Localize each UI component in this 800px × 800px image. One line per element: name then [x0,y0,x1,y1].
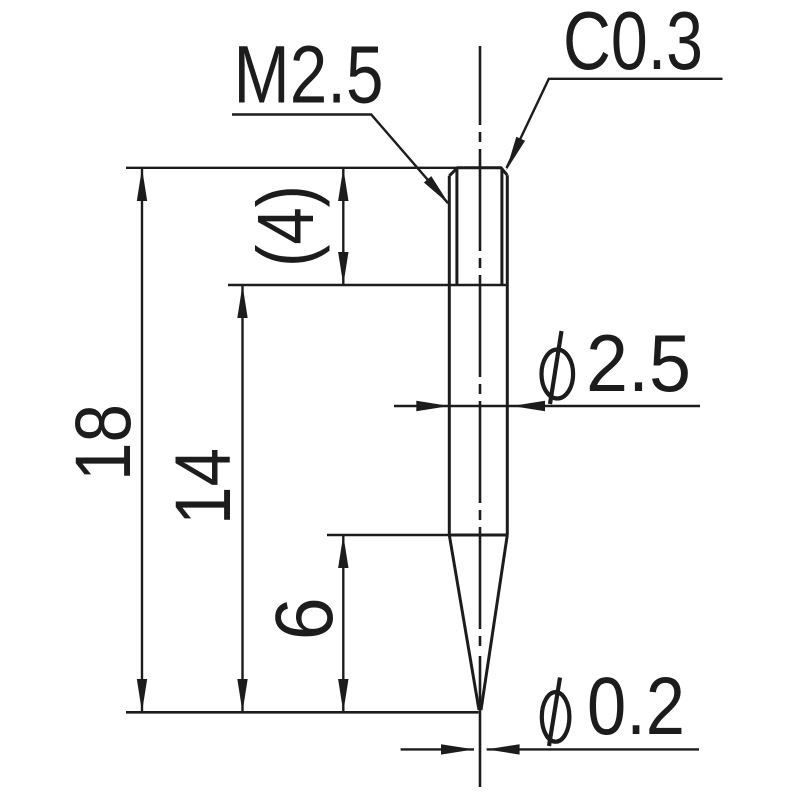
svg-text:2.5: 2.5 [586,319,691,409]
cone right edge [481,535,507,710]
dimension line (4) [342,168,344,285]
arrowhead leader M2.5 [424,176,449,204]
leader M2.5 [232,115,448,204]
dimension line 14 [241,285,243,712]
dimension line dia 2.5 [394,405,700,407]
arrowhead 14 top [237,285,247,318]
arrowhead 6 bottom [338,679,348,712]
svg-text:(4): (4) [241,185,330,267]
arrowhead 18 bottom [137,679,147,712]
thread root line left [455,169,458,285]
pin outer right edge [506,175,509,535]
pin top face and chamfers [449,168,507,176]
phi symbol of dia 2.5 [542,331,574,404]
arrowhead 18 top [137,168,147,201]
leader C0.3 [507,79,723,168]
arrowhead dia2.5 left [416,401,449,411]
center line [479,46,482,649]
pin outer left edge [448,176,451,535]
svg-text:M2.5: M2.5 [234,30,384,121]
extension line top (18 and (4) dims) [126,167,457,169]
svg-text:14: 14 [158,448,247,525]
extension line taper start (6 dim) [327,534,449,536]
arrowhead 6 top [338,535,348,568]
dimension line dia 0.2 left [401,748,474,750]
dimension line 6 [342,535,344,712]
arrowhead (4) top [338,168,348,201]
extension line bottom tip [126,711,479,714]
arrowhead dia0.2 left [441,744,474,754]
extension line thread bottom (4)/14 [228,284,508,286]
arrowhead dia2.5 right [512,401,545,411]
arrowhead (4) bottom [338,252,348,285]
dimension line 18 [141,168,143,712]
svg-text:6: 6 [259,597,350,640]
cone-cylinder junction line [449,534,507,537]
svg-text:C0.3: C0.3 [563,0,703,87]
phi symbol of dia 0.2 [542,678,570,747]
arrowhead dia0.2 right [487,744,520,754]
dimension line dia 0.2 right [487,748,699,750]
arrowhead 14 bottom [237,679,247,712]
cone left edge [449,535,479,710]
thread root line right [500,169,503,285]
svg-text:18: 18 [58,404,147,481]
svg-text:0.2: 0.2 [587,661,685,752]
arrowhead leader C0.3 [506,137,525,171]
